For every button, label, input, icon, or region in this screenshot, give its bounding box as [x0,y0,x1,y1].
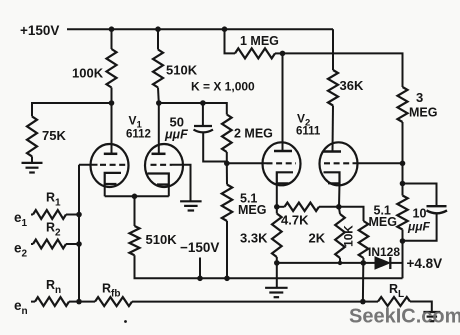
wire RL right lead [410,302,432,312]
node junction 2K / bottom bus [338,261,342,265]
resistor Rfb [95,297,132,306]
node junction 5.1 MEG left / -150V rail [224,276,230,282]
op-amp tube V2 6111 envelope right [320,142,358,185]
capacitor 10 uuF plates [427,205,447,207]
tube V2 left cathode [277,172,293,183]
resistor RL [378,297,410,306]
resistor 36K [328,70,338,106]
wire down to -150V rail corner [402,241,404,278]
wire RL left lead [363,301,378,303]
wire -150V rail [135,255,403,278]
capacitor C 50 uuF top lead [202,103,204,126]
svg-text:75K: 75K [42,128,66,143]
node junction 100K / 75K / V1 plate [109,100,115,106]
svg-text:μμF: μμF [164,128,188,142]
resistor 2 MEG [222,115,232,153]
wire 510K bottom lead [157,88,160,104]
wire 5.1 MEG left bottom lead [226,221,228,278]
wire e2 lead [31,243,33,245]
wire Rfb left lead [79,301,95,303]
svg-text:e1: e1 [14,210,28,229]
wire rail right corner down [332,29,334,70]
svg-text:1 MEG: 1 MEG [240,34,279,48]
ground V1 right grid [180,200,202,202]
node junction 1 MEG / V2 plate [280,51,286,57]
wire V1 right cathode lead [168,185,170,197]
resistor 4.7K [285,203,320,211]
svg-text:MEG: MEG [409,106,437,120]
wire 510K top lead [157,29,159,49]
svg-text:μμF: μμF [407,220,430,234]
op-amp tube V2 6111 envelope left [263,142,301,185]
svg-text:Rfb: Rfb [102,282,120,300]
wire V1 left grid lead [79,164,98,166]
resistor 100K [107,49,117,88]
svg-text:4.7K: 4.7K [281,213,309,228]
ground below RL [423,311,440,313]
svg-text:IN128: IN128 [368,245,400,259]
svg-text:SeekIC.com: SeekIC.com [349,306,460,328]
svg-text:2K: 2K [309,231,326,246]
svg-text:2 MEG: 2 MEG [234,127,273,141]
tube V2 right grid (dashed) [324,162,353,164]
ground below 3.3K [276,263,278,288]
wire bottom bus [277,262,364,264]
resistor 5.1 MEG left [222,185,232,222]
svg-text:6111: 6111 [296,126,321,138]
node junction -150V stub [197,276,203,282]
svg-text:R2: R2 [46,221,61,239]
wire 5.1 MEG right bottom lead [402,230,404,242]
wire -150V stub [199,258,201,279]
svg-text:R1: R1 [46,191,61,209]
wire input summing bus [78,165,80,302]
resistor 5.1 MEG right [397,196,407,230]
node stray mark [124,320,127,323]
wire 10 uuF top arm [403,184,437,207]
wire 100K top lead [111,29,113,49]
resistor 1 MEG [235,48,275,58]
node junction V2 grid / 2 MEG / 5.1 MEG [224,161,230,167]
svg-text:K = X 1,000: K = X 1,000 [191,80,255,94]
svg-text:e2: e2 [14,241,28,260]
wire 10 uuF bottom return [403,214,437,241]
svg-text:+150V: +150V [20,23,59,38]
capacitor C 50 uuF plates [194,125,212,127]
wire top feed to 3 MEG [283,53,403,87]
wire 3 MEG bottom lead [402,122,404,163]
op-amp tube V1 6112 envelope right [145,144,183,187]
wire V1 cathode bus [105,195,169,197]
wire 1 MEG right lead [275,52,283,54]
svg-text:510K: 510K [166,63,198,78]
resistor 3 MEG [398,87,408,122]
diode IN128 [375,257,390,269]
resistor R1 [33,210,66,219]
node junction R2 / bus [76,241,82,247]
wire feedback line [132,301,363,303]
tube V1 right cathode [148,174,169,185]
resistor 510K cathode [130,226,140,255]
wire 50 uuF bottom lead to V2 grid node [203,133,227,163]
node junction V2 right grid / 3 MEG / 5.1 MEG [400,161,406,167]
resistor 2K [339,207,340,214]
tube V2 left grid (dashed) [267,162,297,164]
wire 5.1 MEG right top lead [402,184,404,196]
svg-text:6112: 6112 [126,129,151,141]
svg-text:100K: 100K [72,66,104,81]
node junction V2 right cathode / 4.7K / 2K / 10K [336,204,342,210]
wire 5.1 MEG left top lead [226,163,228,184]
wire 10K top lead [339,207,364,221]
wire 510K cathode top lead [134,196,136,226]
resistor 510K upper [153,50,163,88]
svg-text:3.3K: 3.3K [240,231,268,246]
svg-text:Rn: Rn [46,278,61,296]
wire output riser [362,263,364,302]
svg-text:en: en [14,298,28,317]
wire 75K bottom lead [31,156,33,162]
svg-text:MEG: MEG [369,215,397,229]
wire 100K bottom lead [111,88,113,104]
svg-text:−150V: −150V [180,240,219,255]
svg-text:3: 3 [416,90,423,105]
node junction 50uuF top [200,100,206,106]
svg-text:MEG: MEG [238,203,266,217]
wire 1 MEG branch drop [225,29,236,53]
node junction R1 / bus [76,212,82,218]
ground below 75K [22,162,43,164]
resistor 75K [27,116,37,156]
node junction 10K / diode / output riser [361,260,367,266]
node junction top rail / 1 MEG branch [222,26,228,32]
svg-text:10: 10 [413,207,427,221]
wire V2 left grid lead [227,162,267,164]
node junction Rn / Rfb / bus [76,299,82,305]
tube V2 right plate [323,150,341,152]
tube V2 left plate [282,53,284,151]
wire 36K bottom lead to V2 right plate [332,106,335,152]
tube V1 left grid (dashed) [100,164,127,166]
wire e1 lead [31,214,33,216]
tube V2 right cathode [324,172,340,183]
wire en lead [31,301,35,303]
wire V1 right grid to ground [172,165,191,201]
node junction feedback / output [360,299,366,305]
node junction 5.1 MEG right / cap arm [400,181,406,187]
resistor Rn [35,297,69,306]
wire 510K node to 2 MEG top [159,103,227,115]
node junction top rail / 510K [155,26,161,32]
tube V1 left plate [111,103,113,154]
wire V2 left cathode lead [276,183,278,207]
wire to 75K [32,103,112,116]
node junction 5.1 MEG / cap return / diode node [400,238,406,244]
tube V1 right plate [158,103,160,154]
svg-text:RL: RL [389,282,404,300]
node junction top rail / 100K [109,26,115,32]
node junction 3.3K / bottom bus / ground [274,260,280,266]
op-amp tube V1 6112 envelope left [91,144,129,187]
node junction 510K / V1 plate / coupling [156,100,162,106]
wire 4.7K right lead [319,206,339,208]
svg-text:36K: 36K [340,78,364,93]
wire V2 right cathode lead [338,183,341,207]
wire top +150V rail [67,28,333,30]
resistor 3.3K [276,207,278,214]
svg-text:+4.8V: +4.8V [407,256,443,271]
wire grid node down [402,163,404,183]
resistor 10K [359,221,369,258]
tube V1 left cathode [105,173,121,184]
resistor R2 [33,240,66,249]
svg-text:510K: 510K [146,232,178,247]
node junction cathode bus / 510K [132,194,138,200]
svg-text:10K: 10K [342,225,356,247]
wire 2 MEG bottom lead [226,152,228,163]
wire V1 left cathode lead [104,184,106,196]
wire diode anode lead [363,262,375,264]
tube V1 right grid (dashed) [151,164,173,166]
wire V2 right grid lead [353,162,403,164]
wire 4.7K left lead [277,206,285,208]
wire diode cathode lead [390,262,402,264]
node junction V2 left cathode / 4.7K / 3.3K [274,204,280,210]
